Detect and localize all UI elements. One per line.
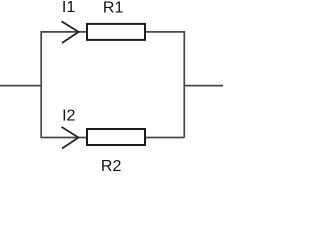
wire bottom branch left: [40, 137, 87, 139]
wire right vertical junction: [183, 32, 185, 138]
wire bottom branch right: [145, 137, 184, 139]
wire top branch right: [145, 31, 185, 33]
current arrow I1: [62, 21, 79, 43]
svg-text:I2: I2: [62, 108, 75, 125]
resistor R2: [87, 129, 145, 145]
wire output right: [184, 85, 223, 87]
current arrow I2: [62, 127, 79, 149]
wire left vertical junction: [40, 32, 42, 138]
wire top branch left: [40, 31, 87, 33]
svg-text:R2: R2: [101, 158, 122, 172]
svg-text:I1: I1: [62, 0, 75, 16]
svg-text:R1: R1: [103, 0, 124, 16]
resistor R1: [87, 24, 145, 40]
wire input left: [0, 85, 41, 87]
